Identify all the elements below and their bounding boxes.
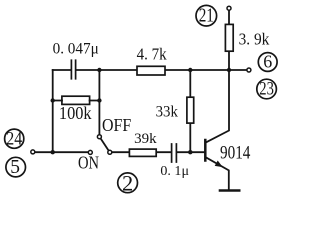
svg-text:ON: ON: [78, 152, 99, 172]
svg-text:33k: 33k: [156, 104, 178, 121]
svg-text:24: 24: [6, 129, 22, 150]
svg-text:23: 23: [259, 80, 274, 100]
svg-text:4. 7k: 4. 7k: [137, 45, 167, 64]
svg-text:100k: 100k: [59, 103, 92, 123]
svg-text:2: 2: [122, 170, 133, 195]
svg-text:3. 9k: 3. 9k: [239, 29, 270, 48]
svg-text:0. 1μ: 0. 1μ: [160, 164, 189, 179]
svg-text:21: 21: [199, 5, 214, 26]
svg-text:5: 5: [10, 157, 20, 178]
svg-text:39k: 39k: [134, 131, 157, 147]
svg-text:0. 047μ: 0. 047μ: [53, 40, 99, 57]
svg-text:9014: 9014: [220, 142, 251, 163]
svg-text:6: 6: [263, 51, 272, 71]
svg-text:OFF: OFF: [102, 115, 131, 135]
